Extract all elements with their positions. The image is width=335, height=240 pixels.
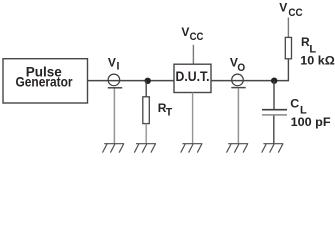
label VI (108, 55, 120, 72)
VI probe shield tick (108, 87, 122, 89)
wire: VCC to RL top (287, 18, 289, 38)
svg-text:I: I (117, 61, 120, 73)
resistor RT (143, 97, 150, 124)
node VI probe circle (108, 74, 120, 86)
label VCC above RL (279, 1, 303, 19)
wire: junction to RT (145, 81, 147, 97)
wire: pulse generator output to D.U.T. input (88, 80, 175, 82)
wire: VI shield to ground (113, 89, 115, 144)
svg-text:V: V (279, 1, 287, 15)
label VO (230, 56, 246, 75)
capacitor CL bottom plate (262, 114, 287, 116)
label RT (158, 101, 173, 119)
node VO probe circle (232, 74, 244, 86)
ground under VO (227, 144, 249, 153)
ground under CL (262, 144, 284, 153)
pulse generator box (3, 59, 88, 103)
svg-text:D.U.T.: D.U.T. (176, 69, 210, 84)
junction dot: output node to CL (271, 78, 277, 84)
svg-text:O: O (237, 62, 245, 74)
svg-text:C: C (290, 97, 299, 111)
capacitor CL top plate (262, 109, 287, 111)
label RL (301, 35, 316, 55)
wire: RL bottom to output wire (287, 59, 289, 82)
wire: RT to ground (145, 124, 147, 144)
svg-text:10 kΩ: 10 kΩ (300, 54, 335, 68)
wire: DUT bottom to ground (192, 93, 194, 144)
wire: VO shield to ground (237, 88, 239, 143)
junction dot: VI node to RT (145, 78, 151, 84)
ground under VI (103, 144, 125, 153)
wire: junction to CL top plate (273, 81, 275, 110)
DUT box U1 (174, 64, 211, 92)
svg-text:V: V (181, 25, 189, 39)
svg-text:V: V (108, 55, 116, 69)
svg-text:Generator: Generator (16, 75, 74, 90)
svg-text:CC: CC (190, 31, 204, 43)
VO probe shield tick (231, 87, 245, 89)
wire: DUT output to RL corner (211, 80, 289, 82)
svg-text:T: T (166, 107, 173, 119)
wire: VCC to DUT top (192, 45, 194, 64)
ground under RT (134, 144, 156, 153)
ground under DUT (181, 144, 203, 153)
wire: CL bottom plate to ground (273, 116, 275, 144)
label VCC above DUT (181, 25, 203, 43)
svg-text:CC: CC (288, 7, 303, 19)
label CL (290, 97, 307, 117)
svg-text:100 pF: 100 pF (291, 115, 331, 129)
resistor RL (285, 37, 291, 58)
